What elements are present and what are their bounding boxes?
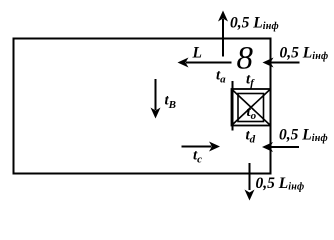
- svg-text:8: 8: [237, 41, 254, 77]
- svg-text:L: L: [192, 45, 202, 62]
